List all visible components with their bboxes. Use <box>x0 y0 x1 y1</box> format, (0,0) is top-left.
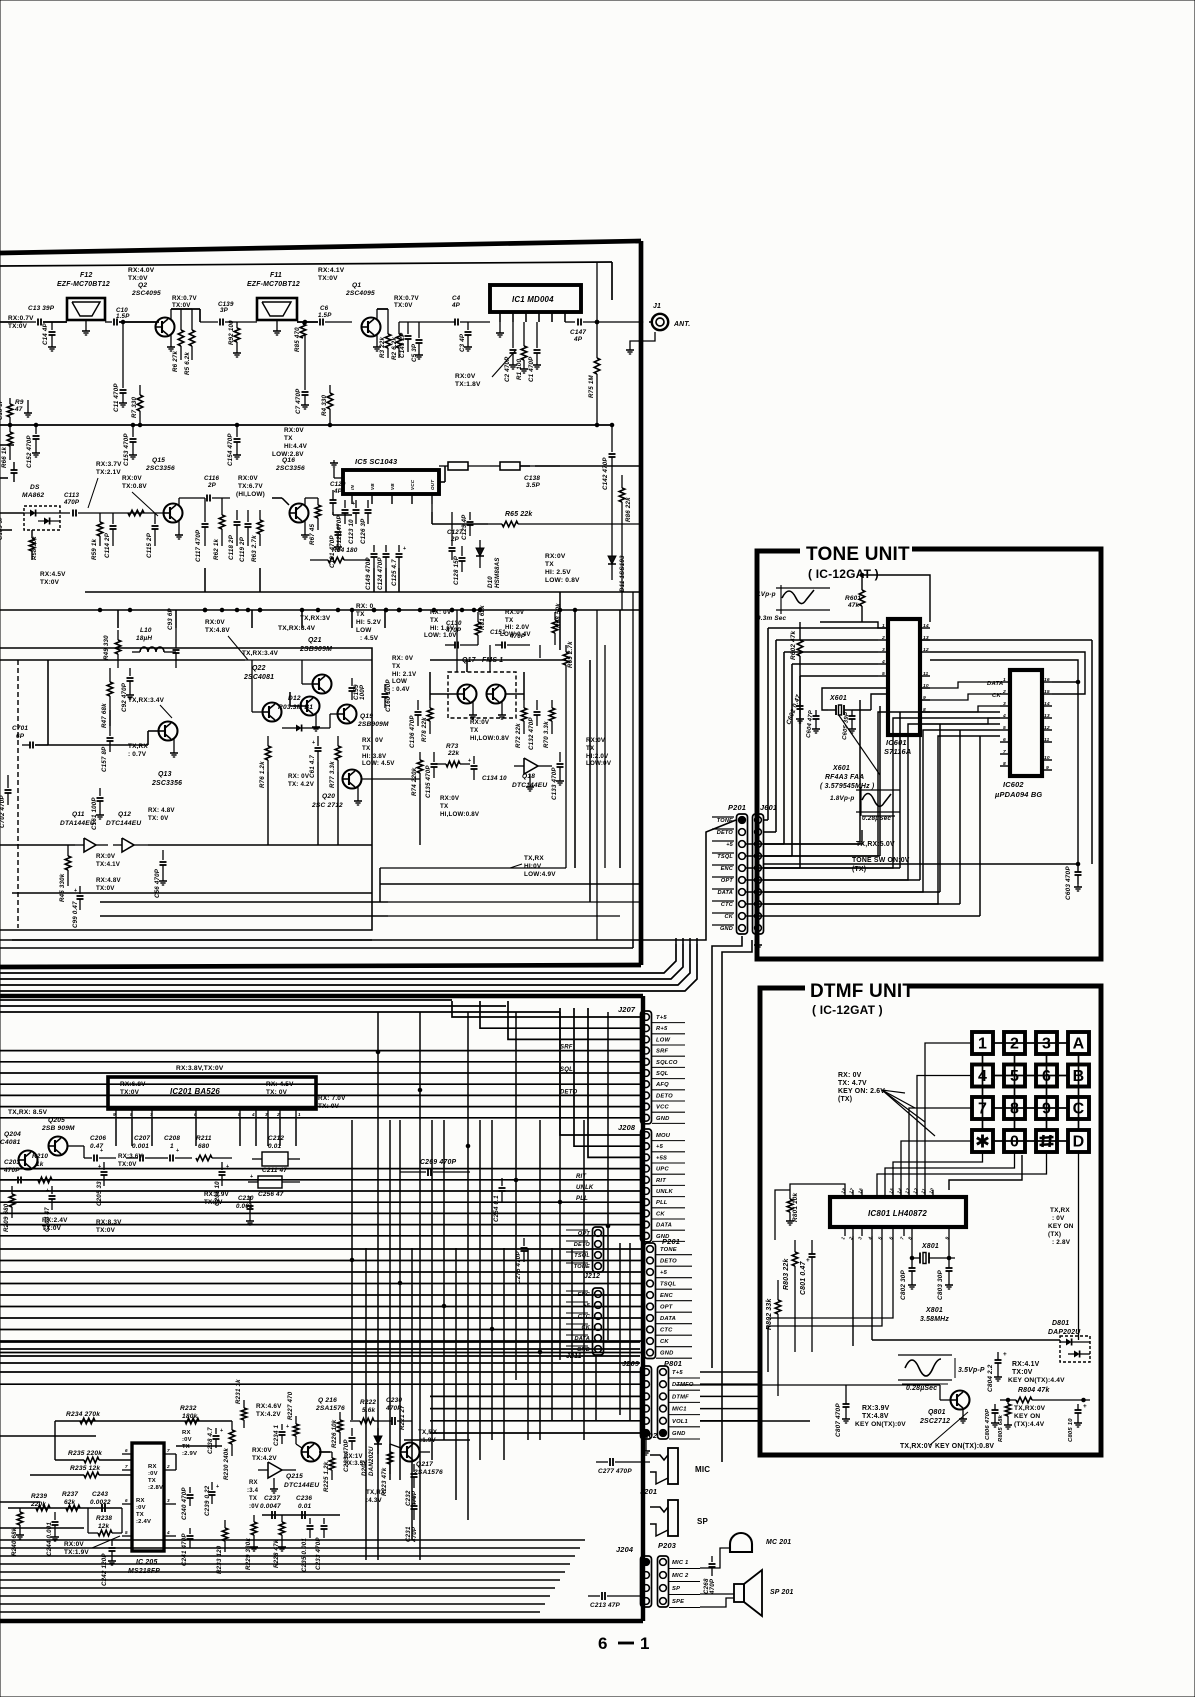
svg-text:TONE: TONE <box>574 1264 590 1270</box>
svg-text:: 0.4V: : 0.4V <box>392 686 410 693</box>
wire bus top 1 <box>0 1005 506 1007</box>
svg-text:470P: 470P <box>3 1167 20 1174</box>
svg-text:C123 10: C123 10 <box>348 519 355 544</box>
resistor R62 1k <box>221 498 223 515</box>
svg-text:TX:0.8V: TX:0.8V <box>122 483 147 490</box>
svg-text:LOW: LOW <box>356 627 372 634</box>
svg-text:MS218FP: MS218FP <box>128 1568 160 1575</box>
wire vertical x552 <box>551 1248 553 1420</box>
svg-text:4: 4 <box>166 1530 170 1535</box>
svg-text:R801 10k: R801 10k <box>792 1192 799 1222</box>
svg-text:D801: D801 <box>1052 1320 1069 1327</box>
dtmf P801 rows into unit <box>700 1420 810 1422</box>
svg-text:TX: 4.7V: TX: 4.7V <box>838 1080 867 1087</box>
q16 collector network <box>304 498 306 505</box>
svg-text:TX,RX: TX,RX <box>1050 1207 1070 1214</box>
svg-text:X601: X601 <box>829 695 847 702</box>
key 2 <box>1004 1032 1025 1054</box>
svg-text:(TX): (TX) <box>838 1096 852 1103</box>
capacitor C157 8P <box>109 726 111 736</box>
svg-text:TX: TX <box>392 663 401 670</box>
svg-text:VCC: VCC <box>656 1105 669 1111</box>
wire Q2 collector to C139 <box>171 308 200 310</box>
svg-text:R238: R238 <box>96 1515 112 1522</box>
svg-text:R234 270k: R234 270k <box>66 1411 100 1418</box>
wire vertical x412 <box>411 1248 413 1540</box>
svg-text:TX:0V: TX:0V <box>120 1089 140 1096</box>
wire IC602 right rail <box>930 660 1078 682</box>
wire: bus between blocks B <box>0 944 683 979</box>
svg-text:+: + <box>46 1188 49 1194</box>
svg-text:Q215: Q215 <box>286 1473 303 1480</box>
svg-text:C93 6P: C93 6P <box>167 607 174 630</box>
svg-text:TX,RX: TX,RX <box>128 743 148 750</box>
svg-text:R210: R210 <box>32 1153 48 1160</box>
Q12 triangle <box>122 838 134 852</box>
svg-text:DAP202U: DAP202U <box>1048 1329 1081 1336</box>
svg-text:RX:0.7V: RX:0.7V <box>394 295 419 302</box>
svg-text:6: 6 <box>194 1112 197 1117</box>
capacitor C2 470P <box>512 322 514 348</box>
svg-text:TSQL: TSQL <box>574 1253 590 1259</box>
svg-text:R86 22k: R86 22k <box>625 497 632 522</box>
svg-text::0V: :0V <box>136 1505 146 1511</box>
wire to IC1 pins <box>468 321 490 323</box>
wire bus band3 1 <box>0 1348 640 1350</box>
wire bus J208 row 8 <box>0 1224 640 1226</box>
wire bus J207 row 4 <box>0 1061 640 1063</box>
q14 connections <box>109 710 111 726</box>
wire q216 row <box>319 1451 330 1453</box>
resistor R223 47k <box>387 1452 393 1464</box>
svg-text:GND: GND <box>672 1431 686 1437</box>
svg-text:TX,RX:3.4V: TX,RX:3.4V <box>128 697 165 704</box>
svg-text:GND: GND <box>720 926 733 932</box>
keypad wires vertical <box>982 1054 984 1130</box>
svg-text:TX:0V: TX:0V <box>118 1161 137 1168</box>
svg-text:RX:0V: RX:0V <box>96 853 116 860</box>
svg-text:LOW: LOW <box>392 678 407 685</box>
dots rail 610 <box>98 608 102 612</box>
svg-text:6: 6 <box>125 1498 128 1503</box>
resistor R9 47 <box>9 398 11 404</box>
wires J601 to ICs <box>764 830 862 844</box>
wire keypad row2 left <box>917 1076 972 1197</box>
svg-text:1: 1 <box>298 1112 301 1117</box>
svg-text:HI:0V: HI:0V <box>524 863 542 870</box>
svg-text:DTA144EU: DTA144EU <box>60 820 95 827</box>
wire q216 emitter row <box>296 1444 302 1448</box>
svg-text:1: 1 <box>882 623 885 629</box>
dtmf extra verticals to P801 <box>852 1236 854 1346</box>
svg-text:TX:0V: TX:0V <box>204 1199 223 1206</box>
transistor Q21 <box>313 675 332 694</box>
svg-text:RX:0V: RX:0V <box>470 719 490 726</box>
svg-text:RX: 0V: RX: 0V <box>288 773 310 780</box>
svg-text:4P: 4P <box>333 488 343 495</box>
svg-text:TX: TX <box>470 727 479 734</box>
tone mesh horizontals <box>746 843 860 845</box>
capacitor C233 470P <box>323 1518 325 1524</box>
capacitor C119 2P <box>247 510 249 522</box>
svg-text:TX: 4.2V: TX: 4.2V <box>288 781 315 788</box>
wire bus P201 row 5 <box>0 1306 644 1308</box>
caps C149 C124 C125 <box>373 545 375 552</box>
svg-text:( IC-12GAT ): ( IC-12GAT ) <box>812 1003 883 1017</box>
resistor R6 27k <box>180 309 182 330</box>
key 1 <box>972 1032 993 1054</box>
svg-text:KEY ON: KEY ON <box>1048 1223 1074 1230</box>
svg-text:680: 680 <box>198 1143 210 1150</box>
inner sub-block border <box>0 648 372 930</box>
svg-text:R229 330k: R229 330k <box>245 1538 252 1570</box>
svg-text:GND: GND <box>660 1351 674 1357</box>
svg-text:LOW: 4.5V: LOW: 4.5V <box>362 760 395 767</box>
svg-text:R62 1k: R62 1k <box>213 538 220 560</box>
svg-text:1Vp-p: 1Vp-p <box>757 591 776 598</box>
capacitor C268 470P <box>711 1556 713 1562</box>
wire RF chain rail y322 segments <box>0 321 22 323</box>
svg-text:IC 205: IC 205 <box>136 1559 158 1566</box>
svg-text:R802 33k: R802 33k <box>766 1298 773 1330</box>
svg-text:C7 470P: C7 470P <box>295 388 302 414</box>
wire bus low 2 <box>0 1555 575 1557</box>
wire vertical x420 <box>419 1012 421 1560</box>
P801 gnd stub <box>645 1438 647 1448</box>
wire Q1 collector right <box>377 308 388 310</box>
svg-text:R221 27: R221 27 <box>399 1405 406 1430</box>
svg-text:IN: IN <box>350 485 355 490</box>
svg-text:DTC144EU: DTC144EU <box>512 782 547 789</box>
svg-text:2SC3356: 2SC3356 <box>151 780 182 787</box>
capacitor C159 100P <box>351 678 353 686</box>
svg-text:R47 68k: R47 68k <box>101 703 108 728</box>
svg-text:TX: TX <box>284 435 293 442</box>
svg-text:8: 8 <box>1003 761 1006 767</box>
svg-text:C16 1P: C16 1P <box>0 399 4 420</box>
wire bus low 7 <box>0 1595 550 1597</box>
left edge stubs top block <box>0 444 14 446</box>
svg-text:C804 2.2: C804 2.2 <box>987 1364 994 1392</box>
svg-text:TX,RX: TX,RX <box>366 1489 386 1496</box>
svg-text:MA862: MA862 <box>22 492 44 499</box>
IC801 top pin numbers <box>844 1190 846 1197</box>
svg-text:5: 5 <box>125 1530 128 1535</box>
wire R801 top rail <box>790 1184 845 1190</box>
wire keypad row4 left <box>901 1141 972 1196</box>
capacitor C7 470P <box>304 335 306 390</box>
svg-text:(TX): (TX) <box>852 866 866 873</box>
capacitor C160 100P <box>384 684 386 692</box>
svg-text:TX:4.2V: TX:4.2V <box>256 1411 281 1418</box>
wire top block bottom rail 1 <box>388 901 641 903</box>
svg-text:0.0022: 0.0022 <box>90 1499 111 1506</box>
tone J601 ladder to IC601 <box>768 627 878 629</box>
resistor R66 1k <box>9 425 11 432</box>
wire IC5 out right <box>431 504 433 512</box>
wire bus J207 row 7 <box>0 1094 640 1096</box>
svg-text:Q 216: Q 216 <box>318 1397 337 1404</box>
svg-text:IC5 SC1043: IC5 SC1043 <box>355 457 398 466</box>
svg-text:C14 4P: C14 4P <box>42 322 49 345</box>
svg-text:B: B <box>1073 1068 1085 1085</box>
svg-text:DTMF UNIT: DTMF UNIT <box>810 981 914 1002</box>
wire bus P801 row 0 <box>0 1371 640 1373</box>
transistor Q13 circle <box>301 697 320 716</box>
svg-text:D: D <box>1073 1134 1085 1151</box>
svg-text:TONE SW ON:0V: TONE SW ON:0V <box>852 857 910 864</box>
svg-text:( IC-12GAT ): ( IC-12GAT ) <box>808 567 879 581</box>
svg-text:SP 201: SP 201 <box>770 1589 794 1596</box>
svg-text:C239 0.22: C239 0.22 <box>204 1485 211 1516</box>
svg-text:2: 2 <box>881 635 885 641</box>
capacitor C241 470P <box>189 1528 191 1534</box>
svg-text:P201: P201 <box>662 1237 680 1246</box>
svg-text:TX: 0V: TX: 0V <box>318 1103 340 1110</box>
svg-text:3: 3 <box>167 1498 170 1503</box>
wire tone top <box>820 622 888 628</box>
wire bus J208 row 7 <box>0 1212 640 1214</box>
wire verticals right side <box>456 610 458 672</box>
svg-text:IC602: IC602 <box>1003 780 1024 789</box>
svg-text:R235 220k: R235 220k <box>68 1450 102 1457</box>
key 7 <box>972 1097 993 1119</box>
leader lines keypad fan <box>882 1090 905 1093</box>
capacitor C232 470P <box>413 1464 415 1472</box>
svg-text:DATA: DATA <box>660 1316 676 1322</box>
svg-text:+: + <box>100 1148 103 1154</box>
svg-text:DETO: DETO <box>656 1093 673 1099</box>
capacitor C240 470P <box>189 1487 191 1493</box>
wire bus P201 row 7 <box>0 1329 644 1331</box>
svg-text:Q20: Q20 <box>322 793 335 800</box>
wire vertical x492 <box>491 1120 493 1440</box>
Q11 triangle <box>84 838 96 852</box>
svg-text:47: 47 <box>14 406 23 413</box>
svg-text:TX:4.1V: TX:4.1V <box>96 861 121 868</box>
capacitor C128 15P <box>461 546 463 556</box>
svg-text:2P: 2P <box>207 482 217 489</box>
svg-text:TX: TX <box>182 1444 190 1450</box>
IC5 gnd left <box>334 477 343 479</box>
row3 left verticals <box>47 660 49 745</box>
svg-text:TX:1.9V: TX:1.9V <box>64 1549 89 1556</box>
svg-text:C254 0.1: C254 0.1 <box>493 1195 500 1222</box>
svg-text:: 0.7V: : 0.7V <box>128 751 147 758</box>
svg-text:R2 6.2k: R2 6.2k <box>391 337 398 360</box>
capacitor C132 470P <box>536 700 538 710</box>
wires q17 region <box>430 693 458 695</box>
IC801 bottom pins <box>844 1227 846 1236</box>
svg-text:7: 7 <box>150 1112 153 1117</box>
svg-text:TX: TX <box>356 611 365 618</box>
capacitor C231 470P <box>413 1496 415 1504</box>
svg-text:R7 330: R7 330 <box>131 396 138 418</box>
svg-text:RX:3.8V,TX:0V: RX:3.8V,TX:0V <box>176 1065 224 1072</box>
svg-text:HI: 5.2V: HI: 5.2V <box>356 619 382 626</box>
svg-text:CK: CK <box>725 914 734 920</box>
svg-text:3: 3 <box>1003 701 1006 707</box>
svg-text:SQLCO: SQLCO <box>656 1060 678 1066</box>
wire bus J208 row 5 <box>0 1190 640 1192</box>
svg-text:C152 470P: C152 470P <box>26 435 33 468</box>
svg-text:J204: J204 <box>616 1545 633 1554</box>
svg-text:R59 1k: R59 1k <box>91 538 98 560</box>
svg-text:8: 8 <box>1010 1101 1019 1118</box>
svg-text:RX:0.7V: RX:0.7V <box>172 295 197 302</box>
resistor R802 33k vertical <box>775 1300 781 1314</box>
svg-text:TSQL: TSQL <box>660 1282 677 1288</box>
svg-text:C244 0.001: C244 0.001 <box>46 1522 53 1556</box>
svg-text:C269 470P: C269 470P <box>420 1159 456 1166</box>
svg-text:C242 120P: C242 120P <box>101 1553 108 1586</box>
svg-text:C116: C116 <box>204 475 219 482</box>
capacitor C234 1 <box>281 1424 283 1430</box>
svg-text:C233 470P: C233 470P <box>315 1537 322 1570</box>
svg-text:0.0047: 0.0047 <box>260 1503 281 1510</box>
svg-text:TONE UNIT: TONE UNIT <box>806 544 910 565</box>
capacitor C161 100P <box>99 788 101 796</box>
svg-text:R237: R237 <box>62 1491 78 1498</box>
svg-text:TX:2.1V: TX:2.1V <box>96 469 121 476</box>
wire q205 links <box>68 1145 84 1147</box>
svg-text:HI: 2.5V: HI: 2.5V <box>545 569 571 576</box>
svg-text:RX:0.7V: RX:0.7V <box>8 315 34 322</box>
capacitor C133 470P <box>559 752 561 762</box>
svg-text:ENC: ENC <box>660 1293 673 1299</box>
wire dtmf mesh lines <box>768 1236 882 1326</box>
capacitor C117 470P <box>204 498 206 522</box>
wire sweep risers to tone connector <box>675 938 677 944</box>
svg-text:TX:4.2V: TX:4.2V <box>252 1455 277 1462</box>
IC201 pin stubs <box>115 1109 117 1119</box>
svg-text:IC801 LH40872: IC801 LH40872 <box>868 1209 927 1218</box>
svg-text:3.5Vp-P: 3.5Vp-P <box>958 1367 985 1374</box>
keypad wires horizontal <box>993 1042 1068 1044</box>
capacitor C118 2P <box>236 510 238 520</box>
capacitor C603 470P <box>1077 864 1079 872</box>
capacitor C229 470P <box>351 1428 353 1436</box>
svg-text:C206: C206 <box>90 1135 106 1142</box>
capacitor C5 3P <box>418 322 420 338</box>
capacitor C145 2P <box>407 322 409 334</box>
wire after-IC5 resistor row <box>439 481 445 483</box>
svg-text:C6: C6 <box>320 305 329 312</box>
svg-text:HSM88AS: HSM88AS <box>494 557 501 588</box>
resistor R67 45 <box>317 498 319 505</box>
wire: main RF block border (bottom) <box>0 965 641 967</box>
svg-text:DATA: DATA <box>656 1223 672 1229</box>
svg-text::0V: :0V <box>148 1471 158 1477</box>
svg-text:HI: 2.0V: HI: 2.0V <box>505 624 530 631</box>
wire vertical x516 <box>515 1012 517 1380</box>
svg-text:R225 1.2k: R225 1.2k <box>323 1461 330 1492</box>
svg-text:C61 4.7: C61 4.7 <box>309 755 316 778</box>
resistor R4 330 <box>329 385 331 393</box>
svg-text:+: + <box>176 1148 179 1154</box>
capacitor C238 4.7 <box>215 1428 217 1434</box>
svg-text:F12: F12 <box>80 272 92 279</box>
svg-text:IC1 MD004: IC1 MD004 <box>512 295 554 304</box>
svg-text:R222: R222 <box>360 1399 376 1406</box>
resistor cluster R59 C114 C115 <box>95 512 163 514</box>
resistor R228 47k <box>279 1522 285 1535</box>
svg-text:LOW:0.4V: LOW:0.4V <box>500 631 531 638</box>
resistor R225 1.2k <box>329 1458 335 1470</box>
wire vertical x630 <box>629 1243 631 1420</box>
svg-text:SQL: SQL <box>656 1071 669 1077</box>
svg-text:R231 1k: R231 1k <box>235 1379 242 1404</box>
svg-text:2SA1576: 2SA1576 <box>315 1405 345 1412</box>
svg-text:TX:4.8V: TX:4.8V <box>862 1413 889 1420</box>
svg-text:KEY ON: 2.6V: KEY ON: 2.6V <box>838 1088 885 1095</box>
svg-text:DATA: DATA <box>717 890 733 896</box>
wire ic205 right rails <box>175 1454 177 1470</box>
resistor R209 680 <box>11 1186 13 1194</box>
svg-text:TX:6.7V: TX:6.7V <box>238 483 263 490</box>
svg-text:KEY ON(TX):0V: KEY ON(TX):0V <box>855 1421 906 1428</box>
wire bus low 9 <box>0 1611 540 1613</box>
svg-text:MIC 2: MIC 2 <box>672 1573 689 1579</box>
svg-text:4: 4 <box>1002 713 1006 719</box>
IC601 pins right top <box>920 627 930 629</box>
DTMF UNIT box border <box>760 986 1101 1455</box>
svg-text:3P: 3P <box>220 307 229 314</box>
svg-text:TX:0V: TX:0V <box>96 885 115 892</box>
svg-text:+5: +5 <box>656 1144 664 1150</box>
capacitor C10 1.5P <box>105 321 112 323</box>
capacitor C807 470P <box>845 1396 847 1404</box>
svg-text:HI:4.4V: HI:4.4V <box>284 443 308 450</box>
svg-text:11: 11 <box>1044 737 1050 743</box>
capacitor C244 0.001 <box>54 1512 56 1520</box>
svg-text:9: 9 <box>113 1112 116 1117</box>
svg-text:13: 13 <box>1044 713 1050 719</box>
svg-text:RIT: RIT <box>656 1178 666 1184</box>
junction dots bus <box>376 1050 380 1054</box>
svg-text:12: 12 <box>1044 725 1050 731</box>
svg-text:C149 470P: C149 470P <box>365 557 372 590</box>
svg-text:4: 4 <box>251 1112 255 1117</box>
svg-text:C138: C138 <box>524 475 540 482</box>
svg-text:C205 33: C205 33 <box>96 1181 103 1206</box>
svg-text:12: 12 <box>923 647 929 653</box>
svg-text:Q12: Q12 <box>118 811 131 818</box>
wire rail y610 <box>0 609 641 611</box>
resistor R1 100 <box>523 322 525 346</box>
svg-text:6: 6 <box>598 1634 608 1653</box>
svg-text:RX: RX <box>148 1464 157 1470</box>
svg-text:2SC4095: 2SC4095 <box>131 290 161 297</box>
svg-text:2SB 909M: 2SB 909M <box>41 1125 75 1132</box>
wire vertical x540 <box>539 1120 541 1440</box>
leader Q801 bottom <box>930 1412 968 1445</box>
wire bus P201 row 0 <box>0 1248 644 1250</box>
svg-text:R67 45: R67 45 <box>309 523 316 545</box>
wire vertical x456 <box>455 1248 457 1500</box>
resistor R231 1k <box>241 1408 247 1420</box>
svg-text:C207: C207 <box>134 1135 150 1142</box>
svg-text:2: 2 <box>1002 689 1006 695</box>
audio block border (top) <box>0 994 643 998</box>
IC602 pins left <box>1000 681 1010 683</box>
svg-text:7: 7 <box>978 1101 987 1118</box>
svg-text:C241 470P: C241 470P <box>181 1533 188 1566</box>
resistor R226 10k <box>337 1420 343 1432</box>
wire bus J208 row 9 <box>0 1235 640 1237</box>
svg-text:5: 5 <box>1003 725 1006 731</box>
resistor R70 3.3k <box>551 700 553 708</box>
